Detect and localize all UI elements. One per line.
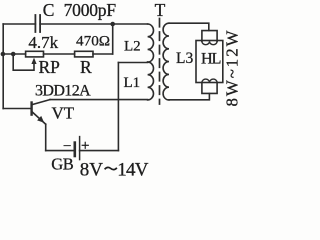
lamp HL top filament coils [202, 41, 217, 44]
battery GB negative plate [74, 143, 77, 156]
svg-text:C: C [43, 0, 55, 20]
capacitor C [35, 15, 40, 32]
svg-text:T: T [155, 0, 166, 20]
svg-text:L3: L3 [176, 50, 193, 67]
transformer primary winding L1 [148, 62, 154, 100]
junction dot left [1, 52, 6, 57]
transformer primary winding L2 [148, 24, 154, 62]
wire center tap to transformer [118, 62, 147, 64]
battery GB positive plate [79, 137, 81, 160]
svg-text:GB: GB [51, 155, 73, 174]
wire emitter down to bottom [45, 124, 47, 150]
junction dot top wire [110, 22, 115, 27]
wire collector to L1 [50, 99, 148, 101]
transistor emitter arrowhead [37, 116, 44, 123]
svg-text:R: R [80, 57, 92, 77]
wire base lead [3, 108, 31, 110]
wire left vertical down to base lead [2, 24, 4, 109]
svg-text:HL: HL [201, 49, 221, 68]
svg-text:4.7k: 4.7k [28, 33, 58, 52]
junction dot wiper [11, 52, 16, 57]
wire battery to right riser [80, 150, 119, 152]
resistor RP body [26, 51, 44, 57]
wire right riser up to center tap [117, 63, 119, 151]
wire riser up to top wire [112, 24, 114, 54]
wire L3 bottom to lamp [169, 94, 209, 100]
wire bottom left to battery [46, 150, 74, 152]
svg-text:3DD12A: 3DD12A [35, 83, 91, 100]
wire from R to riser [93, 53, 113, 55]
transformer secondary winding L3 [163, 23, 169, 100]
transistor VT base bar [30, 103, 32, 115]
wire between RP and R [44, 53, 75, 55]
svg-text:7000pF: 7000pF [64, 0, 117, 20]
resistor R body [75, 51, 93, 57]
svg-text:8W~12W: 8W~12W [223, 29, 240, 107]
wire top-left from capacitor to left corner [3, 23, 35, 25]
svg-text:−: − [63, 139, 71, 155]
transformer core [159, 19, 161, 105]
svg-text:470Ω: 470Ω [76, 33, 110, 50]
transistor emitter lead [32, 111, 46, 124]
svg-text:L1: L1 [124, 75, 141, 91]
svg-text:+: + [81, 138, 89, 154]
lamp HL bottom filament box [202, 83, 217, 94]
transistor collector lead [32, 100, 50, 105]
lamp HL top filament box [202, 31, 217, 42]
svg-text:14V: 14V [117, 159, 148, 177]
tilde of 8V~14V [105, 167, 117, 169]
RP wiper arrowhead [31, 58, 36, 64]
lamp HL bottom filament coils [202, 79, 217, 82]
wire L3 top to lamp [169, 23, 209, 30]
svg-text:RP: RP [39, 57, 61, 77]
svg-text:VT: VT [52, 104, 75, 123]
wire RP wiper tap [13, 54, 34, 70]
lamp HL tube [196, 41, 223, 83]
svg-text:8V: 8V [80, 159, 104, 177]
svg-text:L2: L2 [124, 39, 141, 55]
wire top from capacitor to transformer [40, 23, 148, 25]
wire resistor row left segment [3, 53, 25, 55]
